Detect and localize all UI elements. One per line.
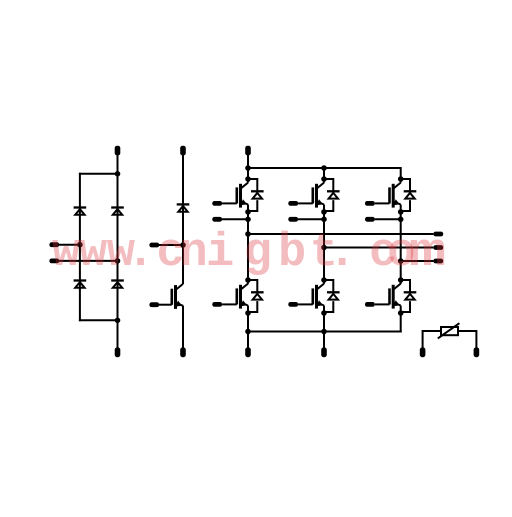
junction leg2 sense node: [321, 217, 327, 223]
terminal AC input 1: [49, 242, 59, 247]
junction node AC2: [115, 258, 121, 264]
wire emitter-sense lead leg2: [298, 218, 324, 220]
junction leg1 upper collector: [245, 176, 251, 182]
terminal gate lower leg2: [288, 302, 298, 307]
wire phase V rail: [324, 247, 433, 249]
terminal N leg1 (bottom): [245, 347, 251, 357]
junction brake mid node: [180, 242, 186, 248]
junction leg3 sense node: [398, 217, 404, 223]
wire brake mid tap: [159, 244, 183, 246]
terminal gate lower leg1: [212, 302, 222, 307]
transistor Q7 (brake IGBT): [157, 280, 183, 309]
junction leg1 phase node: [245, 231, 251, 237]
junction leg1 lower emitter: [245, 310, 251, 316]
terminal thermistor 2: [474, 347, 480, 357]
terminal brake gate: [149, 302, 159, 307]
terminal inverter DC+ (top): [245, 146, 251, 156]
junction leg2 lower emitter: [321, 310, 327, 316]
wire DC+ bus: [248, 167, 401, 169]
terminal brake mid tap: [149, 243, 159, 248]
wire leg3 collector feed: [400, 167, 402, 179]
junction leg1 lower collector: [245, 277, 251, 283]
wire N- bus: [248, 331, 402, 333]
wire brake chopper upper vertical: [182, 155, 184, 284]
junction leg2 upper collector: [321, 176, 327, 182]
wire brake chopper lower vertical: [182, 306, 184, 349]
terminal DC- rectifier (bottom): [115, 347, 121, 357]
transistor Q upper leg2: [298, 179, 324, 208]
diode freewheel upper leg2: [324, 179, 340, 211]
transistor Q lower leg2: [298, 280, 324, 309]
wire gate stub upper leg1: [221, 202, 223, 204]
terminal brake chopper bottom: [180, 347, 186, 357]
wire leg2 emitter to N bus: [323, 306, 325, 349]
wire emitter-sense lead leg1: [222, 218, 248, 220]
terminal emitter-sense upper leg3: [365, 217, 375, 222]
wire phase W rail: [401, 260, 434, 262]
diode freewheel upper leg1: [248, 179, 264, 211]
terminal phase V: [433, 245, 443, 250]
junction leg1 upper emitter: [245, 209, 251, 215]
diode D3 (bridge lower-left): [74, 281, 87, 288]
diode D4 (bridge lower-right): [111, 281, 124, 288]
wire rectifier bottom rail: [79, 319, 118, 321]
wire phase U rail: [248, 233, 433, 235]
transistor Q lower leg1: [222, 280, 248, 309]
diode D1 (bridge upper-left): [74, 208, 87, 215]
wire rectifier right branch vertical: [117, 155, 119, 349]
wire gate stub upper leg3: [374, 202, 376, 204]
wire thermistor left lead: [423, 331, 441, 348]
wire rectifier top rail: [79, 173, 118, 175]
wire leg1 top stub: [247, 155, 249, 168]
wire brake gate lead: [157, 304, 159, 306]
diode freewheel upper leg3: [401, 179, 417, 211]
wire leg2 collector feed: [323, 167, 325, 179]
diode D2 (bridge upper-right): [111, 208, 124, 215]
wire rectifier left branch vertical: [79, 173, 81, 321]
junction leg3 phase node: [398, 258, 404, 264]
terminal AC input 2: [49, 259, 59, 264]
junction DC+ bus at leg2: [321, 165, 327, 171]
junction leg3 upper emitter: [398, 209, 404, 215]
junction leg2 N bus: [321, 329, 327, 335]
svg-text:m: m: [409, 227, 447, 280]
terminal thermistor 1: [420, 347, 426, 357]
terminal DC+ rectifier (top): [115, 146, 121, 156]
junction leg2 phase node: [321, 245, 327, 251]
junction leg3 upper collector: [398, 176, 404, 182]
junction DC+ bus at leg1: [245, 165, 251, 171]
wire leg1 mid vertical: [247, 205, 249, 284]
diode D5 (brake): [177, 204, 190, 211]
transistor Q upper leg1: [222, 179, 248, 208]
diode freewheel lower leg3: [401, 280, 417, 312]
diode freewheel lower leg2: [324, 280, 340, 312]
wire leg2 mid vertical: [323, 205, 325, 284]
wire emitter-sense lead leg3: [375, 218, 401, 220]
wire leg1 emitter to N bus: [247, 306, 249, 349]
junction node AC1: [77, 242, 83, 248]
transistor Q upper leg3: [375, 179, 401, 208]
wire leg3 mid vertical: [400, 205, 402, 284]
junction leg1 N bus: [245, 329, 251, 335]
terminal phase W: [433, 259, 443, 264]
terminal brake chopper top: [180, 146, 186, 156]
terminal emitter-sense upper leg1: [212, 217, 222, 222]
terminal gate upper leg2: [288, 201, 298, 206]
terminal gate lower leg3: [365, 302, 375, 307]
transistor Q lower leg3: [375, 280, 401, 309]
terminal gate upper leg3: [365, 201, 375, 206]
junction rectifier top node: [115, 171, 121, 177]
wire thermistor right lead: [458, 331, 476, 348]
wire leg1 collector feed: [247, 167, 249, 179]
resistor RT (NTC thermistor): [438, 323, 460, 338]
junction leg2 upper emitter: [321, 209, 327, 215]
junction leg3 lower emitter: [398, 310, 404, 316]
wire gate stub upper leg2: [297, 202, 299, 204]
wire AC input 2 to right branch: [59, 260, 118, 262]
wire AC input 1 to left branch: [59, 244, 80, 246]
wire leg3 emitter to N bus corner: [400, 306, 402, 333]
terminal emitter-sense upper leg2: [288, 217, 298, 222]
junction rectifier bottom node: [115, 318, 121, 324]
junction leg1 sense node: [245, 217, 251, 223]
junction leg3 lower collector: [398, 277, 404, 283]
terminal gate upper leg1: [212, 201, 222, 206]
terminal phase U: [433, 232, 443, 237]
junction leg2 lower collector: [321, 277, 327, 283]
terminal N leg2 (bottom): [321, 347, 327, 357]
diode freewheel lower leg1: [248, 280, 264, 312]
watermark text www.cnigbt.com: [52, 227, 447, 280]
